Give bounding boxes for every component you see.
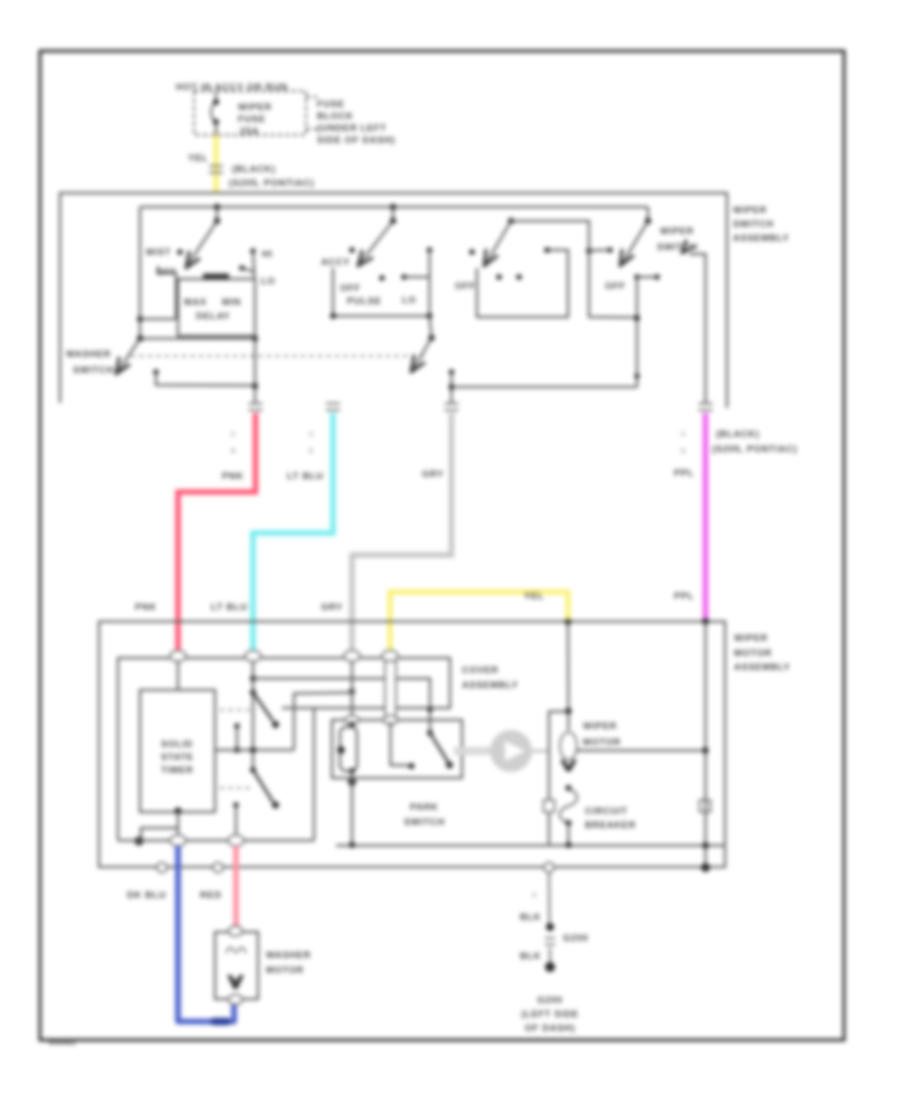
- wire fuse to connector (YEL): [215, 122, 217, 137]
- node SW3 feed a: [586, 248, 592, 254]
- wire PPL: [703, 413, 709, 619]
- svg-text:COVER: COVER: [462, 665, 499, 675]
- fuse feed stub: [215, 92, 217, 101]
- svg-text:OFF: OFF: [340, 283, 361, 293]
- svg-text:DK BLU: DK BLU: [127, 890, 166, 900]
- node pnk riser low: [252, 383, 258, 389]
- svg-text:YEL: YEL: [524, 591, 544, 601]
- connector PPL: [699, 403, 713, 405]
- washer motor box: [215, 932, 258, 999]
- contact SW2 hi: [427, 247, 433, 253]
- park switch box: [332, 720, 462, 778]
- svg-text:(S205, PONTIAC): (S205, PONTIAC): [712, 444, 797, 454]
- node SW3 feed b: [607, 247, 613, 253]
- washer contact: [153, 369, 159, 375]
- contact SW3 left: [469, 249, 475, 255]
- wire feed row 678: [253, 679, 430, 734]
- terminal park yel: [384, 716, 398, 725]
- node relay arm2 pivot: [250, 767, 256, 773]
- drive gear: [490, 730, 532, 772]
- node ppl entry: [702, 618, 709, 625]
- wiper motor coil: [560, 732, 577, 760]
- svg-text:PNK: PNK: [222, 471, 244, 481]
- svg-text:FUSE: FUSE: [238, 114, 266, 124]
- timer out row 750: [215, 749, 294, 751]
- svg-text:BLK: BLK: [520, 912, 541, 922]
- wiper switch leader arrowhead: [682, 241, 693, 253]
- drive gear wedge: [505, 741, 525, 761]
- washer 2 contact: [449, 369, 455, 375]
- node ppl-bus: [702, 842, 708, 848]
- svg-text:B: B: [231, 448, 236, 455]
- svg-text:BLK: BLK: [520, 951, 541, 961]
- node bus-sw2: [390, 204, 396, 210]
- node ltblu-678: [250, 676, 256, 682]
- svg-text:MIN: MIN: [222, 297, 241, 307]
- svg-text:LT BLU: LT BLU: [211, 602, 248, 612]
- wire contact2 drop to red terminal: [235, 805, 237, 838]
- node SW4 riser mid: [634, 315, 640, 321]
- contact sw3 box: [544, 247, 550, 253]
- relay enclosure right edge: [313, 708, 315, 841]
- inline connector C100: [209, 165, 223, 167]
- washer switch arrowhead: [116, 358, 129, 374]
- contact park yel: [409, 763, 415, 769]
- switch SW1 stub: [216, 207, 218, 221]
- wire SW3 riser down: [589, 251, 637, 318]
- node ppl-750: [702, 747, 708, 753]
- inline connector G: [545, 937, 555, 939]
- contact HI SW1: [250, 248, 256, 254]
- node ppl-bottom: [701, 863, 710, 872]
- wire SW3 feed stub: [589, 249, 610, 252]
- node off-branch: [137, 316, 143, 322]
- wire timer ground path: [141, 811, 178, 840]
- svg-text:RED: RED: [200, 890, 222, 900]
- svg-text:OFF: OFF: [605, 281, 626, 291]
- svg-text:(LEFT SIDE: (LEFT SIDE: [521, 1009, 579, 1019]
- switch SW3 arm: [487, 221, 511, 262]
- node park loop top: [349, 721, 354, 726]
- fuse block leader stub: [306, 96, 317, 98]
- svg-text:BLOCK: BLOCK: [317, 111, 354, 121]
- dk blu arrowhead: [214, 1018, 227, 1026]
- node contact1-750: [234, 747, 240, 753]
- node delay-off junction: [252, 336, 258, 342]
- switch SW2 pivot: [390, 218, 396, 224]
- svg-text:PPL: PPL: [674, 468, 694, 478]
- park contact loop: [340, 727, 357, 771]
- wire breaker to bus: [567, 823, 569, 845]
- svg-text:(S205, PONTIAC): (S205, PONTIAC): [229, 178, 314, 188]
- svg-text:TIMER: TIMER: [161, 765, 193, 775]
- svg-text:ASSEMBLY: ASSEMBLY: [734, 662, 791, 672]
- svg-text:YEL: YEL: [188, 153, 208, 163]
- svg-text:PULSE: PULSE: [347, 296, 382, 306]
- wire RED: [233, 846, 238, 927]
- contact SW3 a: [496, 274, 502, 280]
- node park loop bottom: [349, 768, 355, 774]
- svg-text:G200: G200: [563, 933, 589, 943]
- terminal gry: [344, 651, 360, 662]
- svg-text:HI: HI: [262, 249, 273, 259]
- contact SW4 b: [654, 274, 660, 280]
- switch SW3 arrowhead: [484, 250, 497, 266]
- node motor-bus: [566, 842, 572, 848]
- node gry junction: [449, 384, 455, 390]
- wire off contact bracket: [158, 266, 176, 319]
- wire SW3 pivot feed: [511, 221, 589, 251]
- node relay arm1 pivot: [250, 690, 256, 696]
- terminal dk blu: [170, 835, 186, 846]
- svg-text:25A: 25A: [240, 126, 259, 136]
- svg-text:SWITCH: SWITCH: [733, 219, 774, 229]
- svg-text:WIPER: WIPER: [734, 633, 768, 643]
- mechanical link dashed: [131, 355, 428, 357]
- yel double column: [385, 661, 396, 720]
- svg-text:WIPER: WIPER: [660, 226, 694, 236]
- wire BLK to ground: [548, 873, 551, 927]
- node gry-692: [349, 689, 355, 695]
- relay arm2: [253, 770, 273, 802]
- wire riser to washer2 pivot: [430, 316, 432, 338]
- node splice S: [546, 923, 554, 931]
- svg-text:C: C: [532, 892, 537, 899]
- ground bus row: [336, 844, 725, 846]
- wire timer ground to terminal: [177, 828, 179, 839]
- svg-text:CIRCUIT: CIRCUIT: [585, 806, 628, 816]
- node park riser cross: [427, 707, 432, 712]
- node ltblu-750: [250, 747, 256, 753]
- wire SW2 contact stub: [404, 276, 430, 278]
- wire ltblu column: [252, 661, 254, 770]
- terminal pnk: [170, 651, 186, 662]
- grommet blk: [544, 863, 554, 873]
- wire GRY: [352, 413, 452, 652]
- svg-text:WIPER: WIPER: [583, 721, 617, 731]
- switch SW4 arm: [623, 221, 648, 262]
- svg-text:LO: LO: [402, 295, 416, 305]
- yel branch column: [567, 622, 570, 730]
- wire delay out riser: [254, 336, 256, 404]
- wire gry row: [452, 386, 638, 388]
- svg-text:GRY: GRY: [422, 469, 444, 479]
- svg-text:PPL: PPL: [674, 591, 694, 601]
- svg-text:PARK: PARK: [410, 802, 438, 812]
- wire motor to ppl: [577, 749, 706, 751]
- wire off row: [140, 337, 255, 339]
- wiper motor brush chevron: [560, 760, 577, 772]
- connector GRY: [445, 403, 459, 405]
- motor bracket: [549, 712, 569, 846]
- wire ppl riser: [689, 254, 706, 404]
- park arm arrowhead: [446, 761, 453, 768]
- wire LT BLU: [253, 413, 333, 652]
- pulse box bracket: [333, 268, 430, 316]
- washer motor terminal bottom: [229, 995, 243, 1005]
- node park loop left: [337, 746, 345, 754]
- svg-text:(UNDER LEFT: (UNDER LEFT: [317, 123, 387, 133]
- node washer pivot: [137, 335, 143, 341]
- svg-text:DELAY: DELAY: [196, 311, 230, 321]
- wire splice to ground: [549, 948, 551, 964]
- grommet red: [213, 863, 223, 873]
- wire washer contact to pnk riser: [156, 372, 255, 386]
- rheostat wiper bar: [203, 274, 229, 281]
- svg-text:C: C: [231, 431, 236, 438]
- timer dashes link1: [220, 709, 250, 711]
- connector square left: [544, 800, 555, 812]
- svg-text:WASHER: WASHER: [266, 950, 311, 960]
- svg-text:OFF: OFF: [455, 281, 476, 291]
- wire YEL jumper: [390, 592, 568, 656]
- switch SW4 feed: [647, 207, 649, 221]
- contact LO SW1: [239, 265, 245, 271]
- svg-text:BREAKER: BREAKER: [585, 820, 636, 830]
- terminal red: [228, 835, 244, 846]
- bus wire B+: [140, 206, 648, 208]
- svg-text:MOTOR: MOTOR: [266, 965, 304, 975]
- washer switch arm: [119, 339, 140, 371]
- contact SW2 b: [401, 274, 407, 280]
- svg-text:WASHER: WASHER: [66, 349, 111, 359]
- grommet blu: [157, 863, 167, 873]
- connector square right: [700, 800, 711, 812]
- svg-text:(BLACK): (BLACK): [232, 164, 276, 174]
- timer dashes link2: [220, 787, 250, 789]
- wire SW4 contact pair: [637, 276, 657, 278]
- switch SW2 arm: [361, 221, 393, 262]
- wire gear to motor: [532, 750, 549, 752]
- relay contact2: [233, 802, 239, 808]
- node bus-yel: [214, 204, 220, 210]
- node yel entry: [565, 619, 571, 625]
- fuse F1 symbol: [211, 102, 216, 122]
- relay arm2 arrowhead: [272, 801, 279, 808]
- park arm: [430, 733, 448, 762]
- node park-bus: [349, 842, 355, 848]
- wire pnk to timer: [177, 661, 179, 690]
- relay ground rail: [118, 839, 314, 841]
- node breaker top: [566, 785, 572, 791]
- svg-text:PNK: PNK: [135, 602, 157, 612]
- node ground G200: [545, 962, 555, 972]
- switch SW1 arrowhead: [186, 252, 199, 268]
- wire bus left drop to washer pivot: [139, 207, 141, 338]
- fuse node top: [213, 99, 219, 105]
- washer switch 2 arm: [414, 338, 432, 368]
- connector PNK: [249, 403, 263, 405]
- svg-text:STATE: STATE: [161, 752, 194, 762]
- node SW4 riser low: [634, 373, 639, 378]
- node ground bus left: [135, 837, 144, 846]
- svg-text:ASSEMBLY: ASSEMBLY: [462, 680, 519, 690]
- svg-text:GRY: GRY: [321, 602, 343, 612]
- node ltblu tap: [330, 313, 336, 319]
- wire PNK: [178, 413, 256, 652]
- svg-text:G200: G200: [537, 995, 563, 1005]
- switch SW2 stub: [392, 207, 394, 221]
- node breaker bottom: [566, 820, 572, 826]
- wiper switch assembly box: [60, 193, 727, 408]
- switch SW3 pivot: [508, 218, 514, 224]
- svg-text:SWITCH: SWITCH: [404, 817, 445, 827]
- svg-text:D: D: [681, 448, 686, 455]
- solid state timer box: [140, 690, 215, 812]
- wire off-branch horizontal: [140, 318, 176, 320]
- wire LO stub: [242, 268, 255, 272]
- wire yel inside park: [391, 722, 410, 766]
- terminal yel: [382, 651, 398, 662]
- svg-text:C: C: [309, 431, 314, 438]
- svg-text:MAX: MAX: [184, 297, 207, 307]
- park arm pivot: [427, 730, 433, 736]
- connector LTBLU: [326, 403, 340, 405]
- node park exit: [348, 778, 356, 786]
- node timer ground: [174, 807, 181, 814]
- svg-text:OFF: OFF: [156, 267, 177, 277]
- riser 294 to gry: [294, 693, 352, 751]
- wire SW2 riser: [428, 250, 430, 316]
- svg-text:WIPER: WIPER: [238, 102, 272, 112]
- contact MIST: [177, 249, 183, 255]
- wire gry riser: [450, 372, 452, 404]
- svg-text:LT BLU: LT BLU: [287, 471, 324, 481]
- relay arm1 arrowhead: [272, 721, 279, 728]
- wire park exit to bus: [351, 771, 353, 845]
- wire HI stub: [253, 251, 255, 279]
- svg-text:MOTOR: MOTOR: [583, 737, 621, 747]
- svg-text:ASSEMBLY: ASSEMBLY: [733, 233, 790, 243]
- washer motor terminal top: [229, 926, 243, 936]
- contact SW3 b: [516, 274, 522, 280]
- wire SW4 riser: [636, 277, 638, 387]
- washer switch 2 arrowhead: [411, 356, 424, 372]
- switch SW1 pivot: [214, 218, 220, 224]
- cover assembly top line: [118, 658, 450, 841]
- wiper motor assembly box: [99, 622, 725, 868]
- svg-text:(BLACK): (BLACK): [716, 429, 760, 439]
- switch SW1 arm: [189, 221, 217, 263]
- terminal ltblu: [245, 651, 261, 662]
- svg-text:SOLID: SOLID: [161, 739, 193, 749]
- switch SW2 arrowhead: [358, 251, 372, 266]
- svg-text:SWITCH: SWITCH: [73, 365, 114, 375]
- washer motor brushes: [226, 948, 246, 954]
- svg-text:C: C: [681, 431, 686, 438]
- contact SW2 left: [349, 247, 355, 253]
- switch SW4 pivot: [645, 218, 651, 224]
- wire DK BLU: [178, 846, 234, 1022]
- fuse node bottom: [213, 119, 219, 125]
- contact SW2 a: [379, 275, 385, 281]
- svg-text:E: E: [309, 448, 314, 455]
- svg-text:LO: LO: [261, 276, 275, 286]
- circuit breaker symbol: [560, 789, 577, 823]
- sw3 box bracket: [477, 250, 568, 317]
- fuse block dashed box: [194, 91, 306, 135]
- node SW2 riser bottom: [427, 313, 433, 319]
- svg-text:MOTOR: MOTOR: [734, 648, 772, 658]
- terminal park gry: [345, 716, 359, 725]
- wire gry column inside: [351, 661, 353, 720]
- svg-text:MIST: MIST: [146, 247, 171, 257]
- svg-text:WIPER: WIPER: [733, 205, 767, 215]
- svg-text:FUSE: FUSE: [317, 99, 345, 109]
- delay rheostat box: [178, 279, 255, 336]
- svg-text:OF DASH): OF DASH): [525, 1023, 576, 1033]
- node motor top: [565, 708, 571, 714]
- drive link bar: [454, 747, 491, 755]
- relay arm1: [253, 693, 273, 722]
- ppl column: [704, 622, 706, 868]
- svg-text:ACCY: ACCY: [321, 257, 350, 267]
- washer switch 2 pivot: [428, 335, 434, 341]
- washer motor chevron: [227, 975, 244, 989]
- relay contact1: [234, 723, 240, 729]
- wire contact1 drop: [236, 726, 238, 750]
- svg-text:SIDE OF DASH): SIDE OF DASH): [317, 135, 395, 145]
- switch SW4 arrowhead: [620, 250, 633, 266]
- contact SW4 a: [634, 274, 640, 280]
